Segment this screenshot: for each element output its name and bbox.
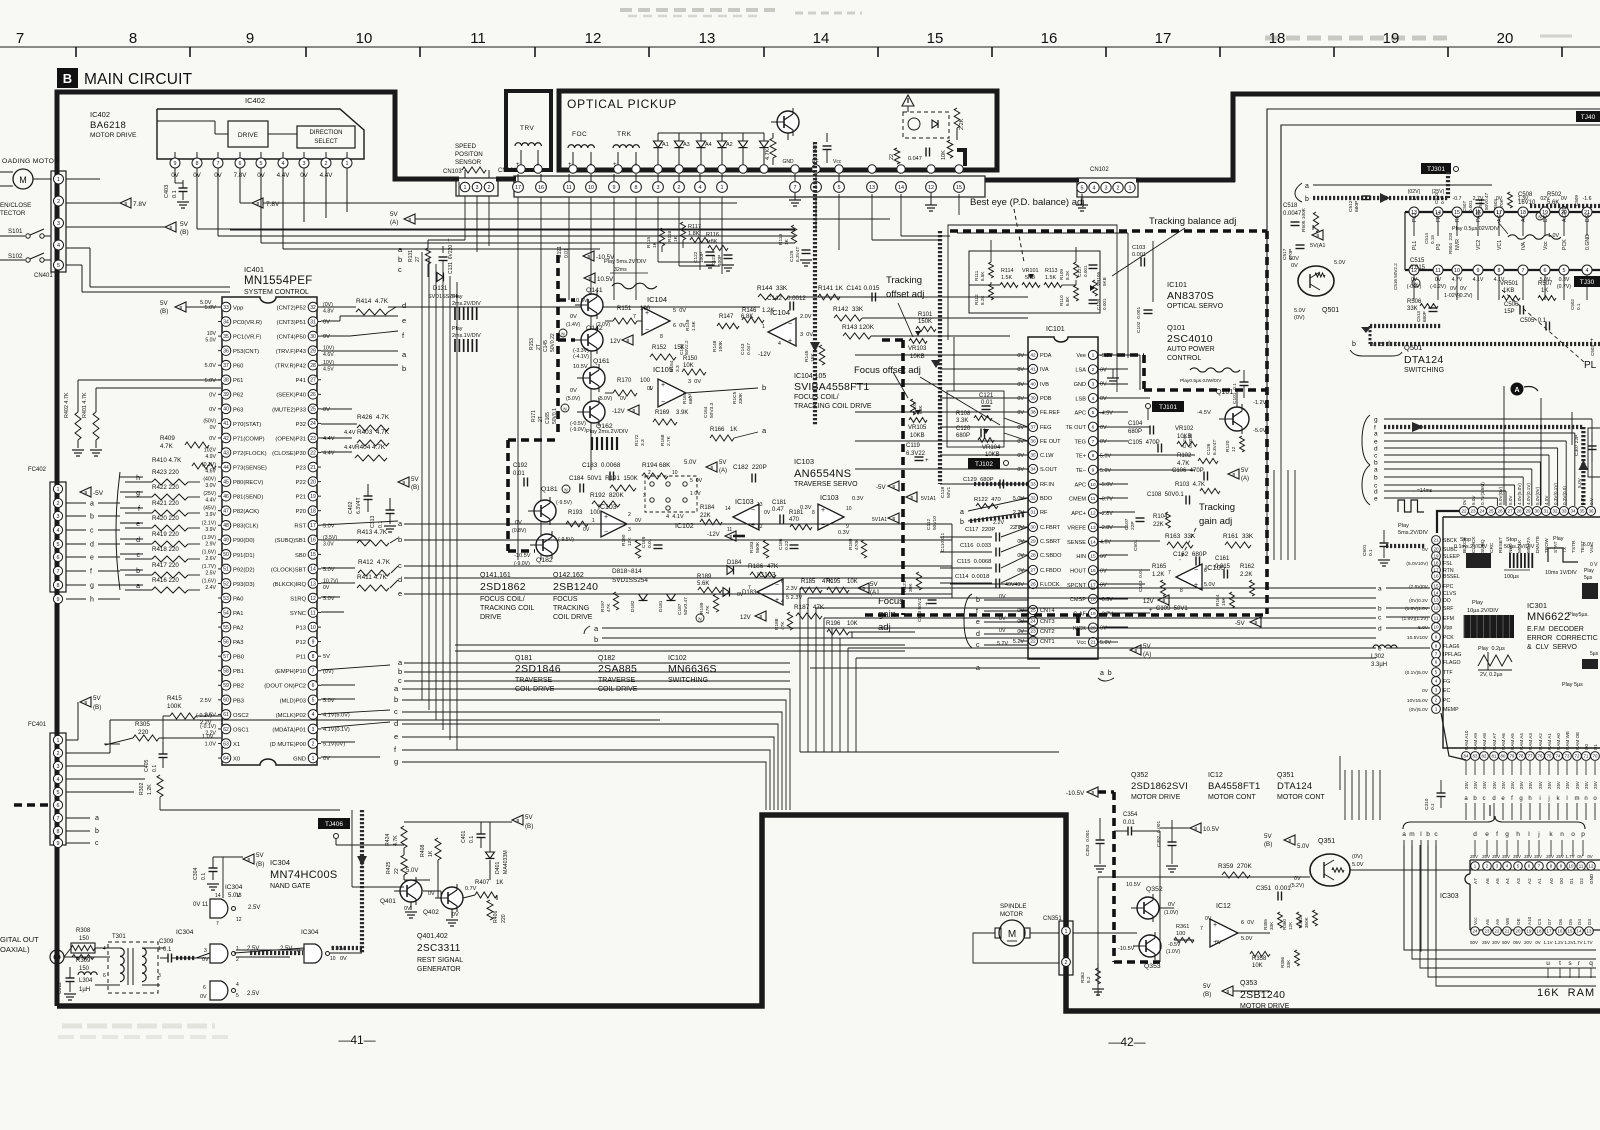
- svg-text:b: b: [762, 383, 766, 392]
- svg-text:49V: 49V: [1005, 582, 1015, 588]
- svg-text:3: 3: [303, 161, 306, 167]
- svg-text:-5V: -5V: [1235, 620, 1246, 627]
- svg-text:13: 13: [757, 502, 763, 508]
- svg-text:C118: C118: [940, 487, 946, 498]
- svg-text:2SC3311: 2SC3311: [417, 943, 461, 954]
- svg-text:1: 1: [1092, 353, 1095, 359]
- svg-text:P83(CLK): P83(CLK): [233, 524, 259, 530]
- svg-text:(0.8V): (0.8V): [512, 528, 526, 534]
- svg-text:5: 5: [312, 698, 315, 704]
- svg-text:AN8370S: AN8370S: [1167, 290, 1214, 302]
- svg-text:5: 5: [260, 161, 263, 167]
- svg-text:VR104: VR104: [982, 445, 1001, 451]
- svg-text:5µs: 5µs: [1584, 575, 1593, 581]
- svg-text:17: 17: [1155, 30, 1172, 47]
- svg-text:R167: R167: [682, 392, 688, 404]
- svg-text:25V: 25V: [1510, 781, 1515, 789]
- svg-text:o: o: [1571, 831, 1575, 838]
- svg-text:TECTOR: TECTOR: [0, 210, 26, 217]
- svg-text:b: b: [1374, 475, 1378, 482]
- svg-text:(02V): (02V): [1408, 189, 1421, 195]
- svg-text:P22: P22: [296, 480, 306, 486]
- svg-text:R423 220: R423 220: [152, 469, 179, 476]
- svg-text:-0.7: -0.7: [1453, 196, 1462, 202]
- svg-text:C121: C121: [979, 393, 994, 399]
- svg-text:6.3V22: 6.3V22: [906, 451, 926, 457]
- svg-text:0V: 0V: [1100, 396, 1107, 402]
- svg-text:R183: R183: [749, 541, 755, 553]
- svg-text:5.0V: 5.0V: [1100, 468, 1111, 474]
- svg-text:PL: PL: [1584, 360, 1597, 371]
- svg-text:−: −: [645, 327, 649, 334]
- svg-text:a: a: [90, 501, 94, 508]
- svg-text:DSL: DSL: [1585, 212, 1591, 222]
- svg-text:R149: R149: [685, 319, 691, 331]
- svg-text:a: a: [95, 815, 99, 822]
- svg-text:55: 55: [223, 625, 229, 631]
- svg-text:N: N: [561, 332, 564, 337]
- svg-text:A10: A10: [1527, 916, 1532, 925]
- svg-text:9: 9: [312, 639, 315, 645]
- svg-text:OAXIAL): OAXIAL): [0, 945, 30, 954]
- svg-text:m: m: [1575, 796, 1580, 802]
- svg-text:C304: C304: [193, 867, 199, 880]
- svg-text:16: 16: [1433, 574, 1439, 579]
- svg-text:IC301: IC301: [1527, 601, 1547, 610]
- svg-text:e: e: [1485, 831, 1489, 838]
- svg-text:76: 76: [1538, 754, 1543, 759]
- svg-text:10.5V10V: 10.5V10V: [1407, 635, 1429, 641]
- svg-text:4.6V: 4.6V: [1100, 540, 1111, 546]
- svg-text:RST: RST: [294, 524, 306, 530]
- svg-text:5: 5: [1563, 268, 1566, 274]
- svg-text:5: 5: [838, 185, 841, 191]
- svg-text:R420 220: R420 220: [152, 515, 179, 522]
- svg-text:0V: 0V: [1561, 196, 1568, 202]
- svg-text:2.2K: 2.2K: [1240, 572, 1252, 578]
- svg-text:SVD1SS254: SVD1SS254: [428, 294, 458, 300]
- svg-text:R302: R302: [139, 782, 145, 795]
- svg-text:(MDATA)P01: (MDATA)P01: [272, 727, 306, 733]
- svg-text:0V: 0V: [209, 407, 216, 413]
- svg-text:3.3µH: 3.3µH: [1371, 662, 1387, 668]
- svg-text:2: 2: [1092, 367, 1095, 373]
- svg-text:11: 11: [727, 527, 732, 533]
- svg-text:6.8K: 6.8K: [980, 271, 985, 281]
- svg-text:3: 3: [1105, 185, 1108, 191]
- svg-text:n: n: [1584, 796, 1587, 802]
- svg-text:25: 25: [1030, 608, 1036, 614]
- svg-text:24: 24: [1479, 509, 1485, 514]
- svg-text:29: 29: [310, 348, 316, 354]
- svg-text:58: 58: [223, 669, 229, 675]
- svg-text:+: +: [661, 382, 665, 389]
- svg-text:e: e: [398, 589, 402, 598]
- svg-text:CMEM: CMEM: [1069, 497, 1086, 503]
- svg-text:+: +: [751, 522, 755, 529]
- svg-text:10KB: 10KB: [910, 433, 925, 439]
- svg-text:17: 17: [1547, 929, 1552, 934]
- svg-text:Q182: Q182: [536, 557, 553, 564]
- svg-text:DO: DO: [1543, 214, 1549, 222]
- svg-text:(A): (A): [1241, 476, 1249, 482]
- svg-text:B: B: [1163, 598, 1166, 603]
- svg-text:Tracking balance adj: Tracking balance adj: [1149, 216, 1236, 227]
- svg-text:14: 14: [898, 185, 904, 191]
- svg-text:23: 23: [310, 436, 316, 442]
- svg-text:(5.0V10V): (5.0V10V): [1406, 561, 1428, 567]
- svg-text:31: 31: [1543, 509, 1549, 514]
- svg-text:(B): (B): [525, 823, 533, 830]
- svg-text:DO: DO: [1443, 598, 1451, 604]
- svg-text:0V: 0V: [620, 396, 627, 402]
- svg-text:C115 0.0068: C115 0.0068: [957, 559, 991, 565]
- svg-text:R168: R168: [660, 434, 666, 446]
- svg-text:IC304: IC304: [176, 929, 194, 936]
- svg-text:MN1554PEF: MN1554PEF: [244, 275, 313, 287]
- svg-text:8: 8: [57, 583, 60, 589]
- svg-text:Play0.5µs.0JW/DIV: Play0.5µs.0JW/DIV: [1180, 378, 1222, 384]
- svg-text:Q353: Q353: [1240, 980, 1257, 987]
- svg-text:2SC4010: 2SC4010: [1167, 333, 1213, 345]
- svg-text:02V: 02V: [1540, 196, 1550, 202]
- svg-text:C109 50V1: C109 50V1: [1156, 606, 1188, 612]
- svg-text:TJ301: TJ301: [1427, 166, 1445, 173]
- svg-text:B: B: [893, 516, 896, 521]
- svg-text:25V: 25V: [1492, 854, 1500, 859]
- svg-text:0.01: 0.01: [981, 400, 993, 406]
- svg-text:C514: C514: [1424, 233, 1429, 244]
- svg-text:1: 1: [57, 177, 60, 183]
- svg-text:10: 10: [588, 185, 594, 191]
- svg-text:FC401: FC401: [28, 722, 47, 728]
- svg-text:12: 12: [1231, 446, 1237, 452]
- svg-text:-5V: -5V: [876, 484, 887, 491]
- svg-text:5: 5: [236, 993, 239, 999]
- svg-text:R422 220: R422 220: [152, 484, 179, 491]
- svg-text:7: 7: [794, 185, 797, 191]
- svg-text:C164: C164: [703, 406, 709, 418]
- svg-text:P32: P32: [296, 422, 306, 428]
- svg-text:0.3V(0.1V): 0.3V(0.1V): [1553, 483, 1558, 505]
- svg-text:IC103: IC103: [598, 504, 617, 511]
- svg-text:5.0V: 5.0V: [1577, 477, 1583, 488]
- svg-text:C107: C107: [1124, 518, 1130, 530]
- svg-text:64: 64: [223, 756, 229, 762]
- svg-text:30: 30: [1030, 525, 1036, 531]
- svg-text:2: 2: [1117, 185, 1120, 191]
- svg-text:RAM A5: RAM A5: [1510, 733, 1515, 750]
- svg-text:CONTROL: CONTROL: [1167, 355, 1201, 362]
- svg-text:42: 42: [1030, 353, 1036, 359]
- svg-text:R117: R117: [688, 224, 701, 230]
- svg-text:4: 4: [57, 243, 60, 249]
- svg-text:VR101: VR101: [1022, 268, 1038, 274]
- svg-text:L302: L302: [1371, 654, 1385, 660]
- svg-text:10KB: 10KB: [1177, 434, 1192, 440]
- svg-text:R414 4.7K: R414 4.7K: [356, 298, 389, 305]
- svg-text:50V0.47: 50V0.47: [683, 597, 689, 615]
- svg-text:A5: A5: [1495, 878, 1500, 884]
- svg-text:8: 8: [1092, 453, 1095, 459]
- svg-text:TJ40: TJ40: [1581, 114, 1596, 121]
- svg-text:R413 4.7K: R413 4.7K: [357, 529, 388, 536]
- svg-text:P60: P60: [233, 364, 243, 370]
- svg-text:49V: 49V: [1014, 582, 1024, 588]
- svg-text:3.0V: 3.0V: [323, 541, 334, 547]
- svg-text:4: 4: [1586, 268, 1589, 274]
- svg-text:50µs.2V/DIV: 50µs.2V/DIV: [1504, 544, 1535, 550]
- svg-text:DTA124: DTA124: [1277, 781, 1312, 792]
- svg-text:9: 9: [57, 597, 60, 603]
- svg-text:25V: 25V: [1584, 781, 1589, 789]
- svg-text:(TRV.R)P42: (TRV.R)P42: [275, 364, 306, 370]
- svg-text:0V: 0V: [737, 592, 744, 598]
- svg-text:-2.8V: -2.8V: [1100, 525, 1113, 531]
- svg-text:DIRECTION: DIRECTION: [310, 130, 343, 136]
- svg-text:(A): (A): [719, 468, 727, 474]
- svg-text:P93(D3): P93(D3): [233, 582, 255, 588]
- svg-text:5.0V: 5.0V: [1204, 582, 1215, 588]
- svg-text:5.0V: 5.0V: [1241, 936, 1253, 942]
- svg-text:4.7K: 4.7K: [1177, 461, 1189, 467]
- svg-text:d: d: [1473, 831, 1477, 838]
- svg-text:-10.5V: -10.5V: [1066, 790, 1085, 797]
- svg-text:TJ102: TJ102: [975, 461, 993, 468]
- svg-text:C162 680P: C162 680P: [1173, 551, 1207, 558]
- svg-text:0.7V: 0.7V: [465, 886, 477, 892]
- svg-text:B: B: [517, 818, 520, 823]
- svg-text:21: 21: [1505, 929, 1510, 934]
- svg-text:12: 12: [1589, 864, 1594, 869]
- svg-text:0V: 0V: [1100, 439, 1107, 445]
- svg-text:C105 470P: C105 470P: [1128, 440, 1160, 446]
- svg-text:p: p: [1581, 831, 1585, 838]
- svg-text:n: n: [1560, 831, 1564, 838]
- svg-text:05V: 05V: [1513, 940, 1521, 945]
- svg-text:R148: R148: [712, 340, 718, 352]
- svg-text:2.3V: 2.3V: [786, 586, 798, 592]
- svg-text:VREFE: VREFE: [1067, 525, 1086, 531]
- svg-text:17: 17: [1090, 582, 1096, 588]
- svg-text:SENSE: SENSE: [1067, 540, 1086, 546]
- svg-text:12: 12: [928, 185, 934, 191]
- svg-text:FE.REF: FE.REF: [1040, 410, 1060, 416]
- svg-text:APC: APC: [1074, 482, 1086, 488]
- svg-text:B: B: [85, 490, 88, 495]
- svg-text:7: 7: [312, 669, 315, 675]
- svg-text:0V: 0V: [999, 616, 1006, 622]
- svg-text:R507: R507: [1538, 281, 1553, 287]
- svg-text:D184: D184: [727, 560, 742, 566]
- svg-text:0V: 0V: [209, 436, 216, 442]
- svg-text:6: 6: [781, 579, 784, 585]
- svg-text:SYNC: SYNC: [290, 611, 306, 617]
- svg-text:N: N: [1414, 282, 1417, 287]
- svg-text:GND: GND: [1074, 382, 1086, 388]
- svg-text:102V: 102V: [204, 448, 217, 454]
- svg-text:R189: R189: [697, 574, 712, 580]
- svg-text:B: B: [863, 586, 866, 591]
- svg-text:5V: 5V: [180, 221, 189, 228]
- svg-text:0V: 0V: [1422, 688, 1429, 694]
- svg-text:5V: 5V: [525, 814, 533, 821]
- svg-text:R504 220: R504 220: [1448, 232, 1453, 254]
- svg-text:12V: 12V: [740, 615, 751, 621]
- svg-text:2: 2: [628, 512, 631, 518]
- svg-text:(-4.1V): (-4.1V): [573, 354, 589, 360]
- svg-text:19: 19: [1527, 929, 1532, 934]
- svg-text:100P: 100P: [717, 255, 723, 266]
- svg-text:25V: 25V: [1556, 854, 1564, 859]
- svg-text:P72(FLOCK): P72(FLOCK): [233, 451, 267, 457]
- svg-text:RAM A9: RAM A9: [1473, 733, 1478, 750]
- svg-text:P82(ACK): P82(ACK): [233, 509, 259, 515]
- svg-text:6.3V4T: 6.3V4T: [356, 496, 362, 514]
- svg-text:47K: 47K: [606, 603, 612, 612]
- svg-text:FEG: FEG: [1040, 425, 1052, 431]
- svg-text:IVB: IVB: [1040, 382, 1049, 388]
- svg-text:TJ101: TJ101: [1159, 404, 1177, 411]
- svg-text:R147: R147: [719, 314, 734, 320]
- svg-text:C310: C310: [1424, 798, 1430, 810]
- svg-text:5: 5: [1092, 410, 1095, 416]
- svg-text:R120: R120: [1225, 440, 1231, 452]
- svg-text:(25V): (25V): [1432, 189, 1445, 195]
- svg-text:C.FBRT: C.FBRT: [1040, 525, 1061, 531]
- svg-text:3 0V: 3 0V: [800, 332, 813, 338]
- svg-text:R143 120K: R143 120K: [842, 324, 875, 331]
- svg-text:IC101: IC101: [1046, 326, 1065, 333]
- svg-text:d: d: [136, 537, 140, 544]
- svg-text:4.7K: 4.7K: [765, 148, 771, 160]
- svg-text:B: B: [170, 225, 173, 230]
- svg-text:13: 13: [236, 893, 242, 899]
- svg-text:Q101: Q101: [1167, 323, 1185, 332]
- svg-text:(CNT3)P51: (CNT3)P51: [277, 320, 306, 326]
- svg-text:62: 62: [223, 727, 229, 733]
- svg-text:APC: APC: [1074, 411, 1086, 417]
- svg-text:0V: 0V: [1017, 453, 1024, 459]
- svg-text:SENSOR: SENSOR: [455, 159, 482, 166]
- svg-text:MOTOR CONT: MOTOR CONT: [1208, 794, 1256, 801]
- svg-text:(1.8V)1.0V: (1.8V)1.0V: [1405, 606, 1429, 612]
- svg-text:4.5V: 4.5V: [1544, 495, 1549, 505]
- svg-text:56: 56: [223, 639, 229, 645]
- svg-text:5.0V(0V): 5.0V(0V): [1535, 486, 1540, 505]
- svg-text:RAM WE: RAM WE: [1565, 731, 1570, 750]
- svg-text:(B): (B): [1203, 991, 1211, 998]
- svg-text:1: 1: [1435, 707, 1438, 712]
- svg-text:P11: P11: [296, 655, 306, 661]
- svg-text:C102 0.001: C102 0.001: [1136, 307, 1142, 333]
- svg-text:GND: GND: [1589, 873, 1594, 884]
- svg-text:R355: R355: [1263, 919, 1268, 930]
- svg-text:28: 28: [310, 363, 316, 369]
- svg-text:R308: R308: [76, 928, 91, 934]
- svg-text:15: 15: [1090, 554, 1096, 560]
- svg-text:20: 20: [1497, 30, 1514, 47]
- svg-text:ERROR CORRECTIC: ERROR CORRECTIC: [1527, 635, 1598, 642]
- svg-text:13: 13: [1587, 929, 1592, 934]
- svg-text:OPTICAL PICKUP: OPTICAL PICKUP: [567, 97, 677, 111]
- svg-text:(CNT2)P52: (CNT2)P52: [277, 305, 306, 311]
- svg-text:(OPEN)P31: (OPEN)P31: [275, 436, 306, 442]
- svg-text:25V: 25V: [1482, 781, 1487, 789]
- svg-text:2.4V: 2.4V: [205, 585, 216, 591]
- svg-text:d: d: [398, 575, 402, 584]
- svg-text:3: 3: [312, 727, 315, 733]
- svg-text:10: 10: [1090, 482, 1096, 488]
- svg-text:C169: C169: [641, 536, 647, 548]
- svg-text:TRK: TRK: [617, 131, 632, 138]
- svg-text:100: 100: [640, 306, 651, 312]
- svg-text:6 0V: 6 0V: [1241, 920, 1254, 926]
- svg-text:A0: A0: [1549, 878, 1554, 884]
- svg-text:10: 10: [310, 625, 316, 631]
- svg-text:C184 50V1 R191 150K: C184 50V1 R191 150K: [569, 475, 639, 482]
- svg-text:c: c: [398, 561, 402, 570]
- svg-text:4: 4: [1435, 679, 1438, 684]
- svg-text:CNT2: CNT2: [1040, 629, 1055, 635]
- svg-text:f: f: [976, 608, 978, 615]
- svg-text:A8: A8: [1485, 919, 1490, 925]
- svg-text:FPC: FPC: [1436, 211, 1442, 222]
- svg-text:52: 52: [223, 581, 229, 587]
- svg-text:1.5K: 1.5K: [1045, 275, 1056, 281]
- svg-text:3.9V: 3.9V: [205, 527, 216, 533]
- svg-text:RAM A4: RAM A4: [1519, 733, 1524, 750]
- svg-text:1.5K: 1.5K: [691, 320, 697, 331]
- svg-text:R145: R145: [804, 350, 810, 362]
- svg-text:7: 7: [217, 161, 220, 167]
- svg-text:4.4V: 4.4V: [323, 451, 335, 457]
- svg-text:10.5V: 10.5V: [573, 298, 588, 304]
- svg-text:12: 12: [1433, 606, 1439, 611]
- svg-text:Q141: Q141: [586, 287, 603, 294]
- svg-text:-12V: -12V: [612, 409, 625, 415]
- svg-text:100µs: 100µs: [1504, 574, 1519, 580]
- svg-text:R111: R111: [974, 270, 979, 281]
- svg-text:32ms: 32ms: [614, 267, 627, 273]
- svg-text:TRAVERSE: TRAVERSE: [515, 677, 553, 684]
- svg-text:4.8V: 4.8V: [323, 309, 334, 315]
- svg-text:MAIN CIRCUIT: MAIN CIRCUIT: [84, 71, 193, 88]
- svg-text:2.5V: 2.5V: [205, 570, 216, 576]
- svg-text:OPTICAL SERVO: OPTICAL SERVO: [1167, 303, 1224, 310]
- svg-text:14: 14: [1577, 929, 1582, 934]
- svg-text:0V: 0V: [583, 527, 590, 533]
- svg-text:5.0V: 5.0V: [1100, 453, 1111, 459]
- svg-text:5: 5: [1435, 670, 1438, 675]
- svg-text:10: 10: [1433, 625, 1439, 630]
- svg-text:9: 9: [57, 841, 60, 847]
- svg-text:1KB: 1KB: [1503, 288, 1514, 294]
- svg-text:MOTOR DRIVE: MOTOR DRIVE: [1131, 794, 1181, 801]
- svg-text:4 4.1V: 4 4.1V: [666, 514, 684, 520]
- svg-text:0.047: 0.047: [908, 156, 922, 162]
- svg-text:SWITCHING: SWITCHING: [1404, 367, 1444, 374]
- svg-text:BA6218: BA6218: [90, 120, 126, 131]
- svg-text:BA4558FT1: BA4558FT1: [1208, 781, 1261, 792]
- svg-text:Q351: Q351: [1277, 772, 1294, 779]
- svg-text:T301: T301: [112, 934, 126, 940]
- svg-text:0V: 0V: [452, 912, 459, 918]
- svg-text:60: 60: [223, 698, 229, 704]
- svg-text:50V0.47: 50V0.47: [1484, 192, 1489, 210]
- svg-text:b: b: [1426, 831, 1430, 838]
- svg-text:P73(SENSE): P73(SENSE): [233, 465, 267, 471]
